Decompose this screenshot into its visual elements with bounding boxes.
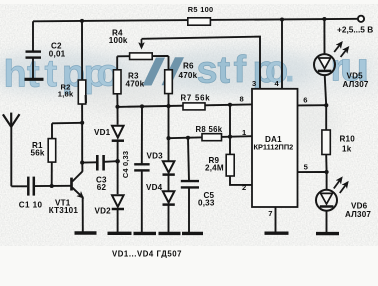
svg-text:VD3: VD3	[147, 152, 164, 161]
wire antenna to C1	[11, 185, 27, 187]
resistor R6	[165, 70, 173, 94]
wire VD3 VD4 column	[168, 106, 170, 160]
capacitor C5	[181, 181, 199, 187]
svg-text:R7 56k: R7 56k	[181, 94, 211, 103]
watermark http://stfp.ru	[4, 45, 370, 95]
LED VD5	[314, 43, 348, 76]
wire C4 column	[141, 107, 143, 165]
wire R4 right lead	[152, 55, 168, 57]
svg-text:100k: 100k	[109, 36, 128, 45]
ground C5	[182, 232, 203, 235]
svg-text:+2,5...5 В: +2,5...5 В	[337, 25, 373, 35]
resistor R5	[188, 18, 211, 25]
wire collector node to C3	[82, 161, 96, 163]
resistor R8	[202, 134, 222, 141]
wire C2 column top	[32, 21, 34, 51]
wire pin 7	[275, 207, 277, 232]
diodes filled	[112, 126, 175, 209]
transistor VT1	[72, 163, 83, 232]
ground pin7	[265, 231, 289, 234]
pin numbers	[240, 79, 309, 218]
svg-text:1,8k: 1,8k	[58, 89, 74, 98]
wire rail to pin 4	[281, 20, 283, 89]
svg-text:2,4M: 2,4M	[205, 164, 224, 173]
svg-text:470k: 470k	[126, 80, 145, 89]
wire sensor line to pin 8	[118, 104, 252, 107]
wire VD5 to pin6 node	[325, 75, 327, 105]
capacitor C3	[97, 155, 103, 171]
svg-text:VD2: VD2	[95, 207, 112, 216]
wire R3 top to R4	[116, 56, 118, 70]
wire R2 collector column	[81, 21, 83, 163]
svg-text:АЛ307: АЛ307	[343, 80, 369, 89]
wire R8 line from VD3 column to pin 1	[169, 136, 252, 138]
terminal +2.5..5V	[358, 16, 364, 22]
resistor R9	[226, 154, 234, 176]
top supply rail	[33, 19, 361, 22]
watermark background haze	[0, 46, 378, 145]
watermark slash 2	[162, 57, 185, 85]
svg-text:КТ3101: КТ3101	[49, 206, 79, 215]
wire C2 column bottom	[32, 58, 34, 79]
LED VD6	[316, 178, 348, 211]
wire wiper to pin 3	[142, 37, 261, 89]
capacitor C2	[26, 52, 42, 58]
wire VD1 column	[117, 107, 119, 125]
watermark slash 1	[143, 58, 166, 86]
antenna	[3, 113, 20, 127]
wire R6 bottom	[168, 94, 170, 107]
svg-text:t: t	[45, 53, 58, 95]
svg-text:f: f	[234, 49, 247, 91]
resistor R1	[48, 139, 56, 163]
svg-text:6: 6	[303, 96, 307, 105]
wire pin 6	[298, 104, 327, 106]
svg-text:t: t	[218, 49, 231, 91]
stray stub	[85, 95, 87, 103]
svg-text:h: h	[4, 54, 27, 96]
svg-text:R5 100: R5 100	[188, 5, 214, 14]
svg-text:3: 3	[252, 79, 256, 88]
svg-text:7: 7	[268, 209, 272, 218]
svg-text:62: 62	[97, 183, 107, 192]
resistor R3	[113, 70, 121, 94]
ground VD2	[108, 232, 132, 235]
svg-text:s: s	[197, 50, 218, 92]
ground VD6	[316, 232, 339, 235]
wire junction to R9	[229, 105, 231, 155]
ground C2	[25, 78, 44, 81]
svg-text:470k: 470k	[179, 71, 198, 80]
svg-text:R10: R10	[340, 135, 356, 144]
wire C3 to VD1 column	[104, 160, 118, 163]
wire pin5 node to LED VD6	[326, 172, 328, 190]
wire antenna down	[10, 125, 12, 186]
wire R4 left lead	[117, 55, 129, 57]
svg-text:VD1: VD1	[94, 128, 111, 137]
capacitor C1	[28, 177, 34, 196]
svg-text:.: .	[285, 49, 296, 91]
wire rail to LED VD5	[323, 19, 325, 54]
resistor R2	[78, 80, 86, 104]
svg-text:1k: 1k	[342, 145, 352, 154]
svg-text:C4 0,33: C4 0,33	[121, 151, 130, 178]
svg-text:56k: 56k	[31, 148, 45, 157]
diode VD3	[163, 161, 175, 174]
svg-text:0,01: 0,01	[49, 49, 66, 58]
diode VD4	[163, 191, 175, 204]
wire R1 top link	[52, 122, 82, 125]
svg-text:АЛ307: АЛ307	[345, 210, 371, 219]
wire pin 5	[298, 171, 327, 173]
svg-text:2: 2	[242, 183, 246, 192]
wire R1 bottom	[51, 162, 53, 186]
ground VT1 emitter	[75, 231, 97, 234]
svg-text:0,33: 0,33	[198, 198, 215, 207]
wire C5 column	[188, 138, 189, 181]
wire R3 bottom	[116, 94, 118, 107]
ground C4	[134, 232, 157, 235]
svg-text:8: 8	[240, 94, 244, 103]
diode VD2	[112, 195, 124, 209]
svg-text:C1 10: C1 10	[19, 201, 43, 210]
resistor R4	[130, 53, 153, 60]
wire C5 bottom	[188, 188, 190, 232]
IC DA1 box	[252, 89, 298, 207]
diode VD1	[112, 126, 124, 141]
svg-text:VD4: VD4	[146, 183, 163, 192]
ground VD4	[159, 232, 181, 235]
capacitor C4	[134, 164, 149, 170]
wire C4 bottom	[141, 171, 143, 233]
resistor R7	[183, 103, 205, 110]
svg-text:R6: R6	[183, 62, 194, 71]
svg-text:VD1...VD4 ГД507: VD1...VD4 ГД507	[112, 250, 182, 259]
wire VD6 to ground	[326, 211, 328, 233]
wire R9 bottom to pin 2	[230, 176, 252, 185]
wire C1 to base	[34, 185, 71, 187]
svg-text:R8 56k: R8 56k	[196, 125, 223, 134]
resistor R10	[325, 105, 327, 130]
svg-text:КР1112ПП2: КР1112ПП2	[253, 143, 293, 152]
R4 wiper arrow	[141, 39, 143, 48]
